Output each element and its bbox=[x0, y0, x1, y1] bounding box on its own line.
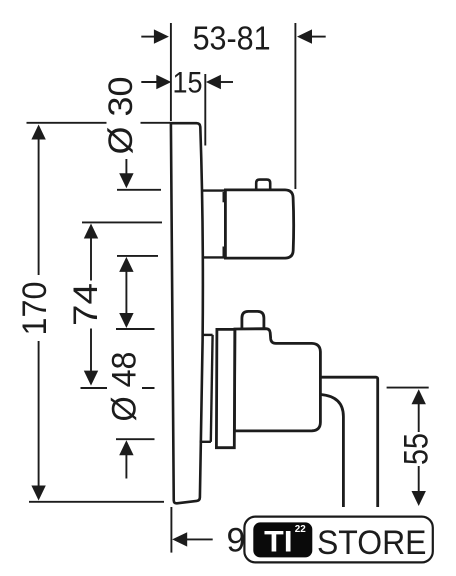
svg-text:170: 170 bbox=[16, 282, 54, 336]
svg-text:Ø 48: Ø 48 bbox=[106, 352, 144, 422]
svg-text:74: 74 bbox=[67, 283, 105, 326]
svg-text:TI: TI bbox=[264, 526, 293, 559]
svg-text:15: 15 bbox=[173, 66, 203, 99]
svg-text:Ø 30: Ø 30 bbox=[102, 77, 140, 155]
svg-text:53-81: 53-81 bbox=[193, 19, 271, 56]
svg-text:STORE: STORE bbox=[317, 524, 427, 562]
svg-text:55: 55 bbox=[398, 433, 436, 465]
svg-text:22: 22 bbox=[295, 523, 306, 535]
